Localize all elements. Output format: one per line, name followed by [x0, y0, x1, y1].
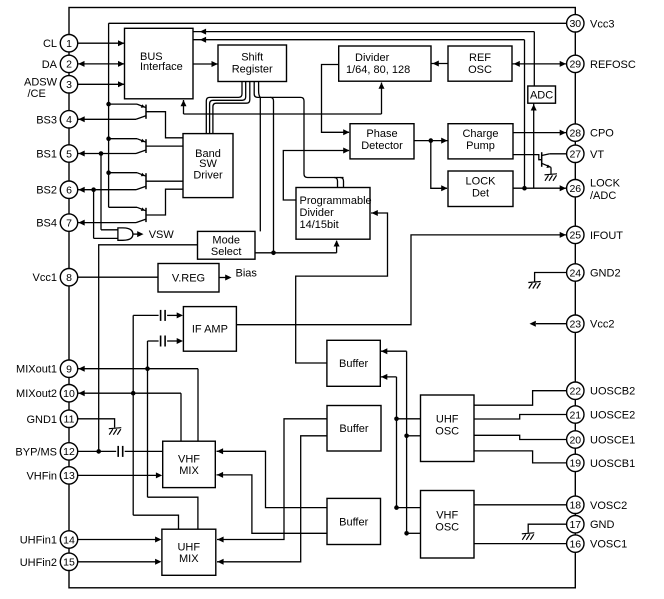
svg-text:OSC: OSC [468, 64, 492, 76]
svg-text:10: 10 [63, 388, 75, 400]
svg-text:1: 1 [66, 38, 72, 50]
svg-text:VHF: VHF [178, 454, 200, 466]
svg-text:CPO: CPO [590, 128, 614, 140]
svg-text:5: 5 [66, 148, 72, 160]
svg-text:Detector: Detector [361, 140, 403, 152]
svg-text:7: 7 [66, 217, 72, 229]
svg-text:Interface: Interface [140, 61, 183, 73]
svg-text:UHF: UHF [436, 414, 459, 426]
svg-text:Mode: Mode [212, 234, 240, 246]
svg-text:Vcc1: Vcc1 [33, 272, 57, 284]
svg-text:ADSW: ADSW [24, 77, 58, 89]
svg-text:Bias: Bias [236, 268, 258, 280]
svg-text:DA: DA [42, 59, 58, 71]
svg-text:Driver: Driver [193, 170, 223, 182]
svg-text:Shift: Shift [241, 52, 263, 64]
svg-text:OSC: OSC [435, 522, 459, 534]
svg-text:Buffer: Buffer [339, 423, 368, 435]
svg-text:BS1: BS1 [36, 149, 57, 161]
svg-text:VOSC2: VOSC2 [590, 500, 627, 512]
svg-text:Pump: Pump [466, 140, 495, 152]
svg-text:12: 12 [63, 446, 75, 458]
svg-text:VOSC1: VOSC1 [590, 539, 627, 551]
svg-text:GND1: GND1 [26, 414, 57, 426]
svg-text:30: 30 [569, 18, 581, 30]
svg-text:11: 11 [64, 414, 75, 426]
svg-text:MIX: MIX [179, 553, 199, 565]
svg-text:Charge: Charge [462, 128, 498, 140]
svg-text:15: 15 [63, 557, 75, 569]
svg-text:2: 2 [66, 59, 72, 71]
svg-text:MIXout1: MIXout1 [16, 364, 57, 376]
svg-text:Buffer: Buffer [339, 517, 368, 529]
svg-text:UHFin2: UHFin2 [20, 557, 57, 569]
svg-text:14: 14 [63, 534, 75, 546]
svg-text:BS3: BS3 [36, 114, 57, 126]
svg-text:BYP/MS: BYP/MS [15, 446, 57, 458]
svg-text:UHFin1: UHFin1 [20, 535, 57, 547]
svg-text:8: 8 [66, 272, 72, 284]
svg-text:Phase: Phase [366, 128, 397, 140]
svg-text:23: 23 [569, 319, 581, 331]
svg-text:16: 16 [569, 538, 581, 550]
svg-text:18: 18 [569, 500, 581, 512]
svg-text:26: 26 [569, 183, 581, 195]
svg-text:OSC: OSC [435, 426, 459, 438]
svg-text:Buffer: Buffer [339, 358, 368, 370]
svg-text:REF: REF [469, 52, 491, 64]
svg-text:BS2: BS2 [36, 185, 57, 197]
svg-text:REFOSC: REFOSC [590, 59, 636, 71]
svg-text:4: 4 [66, 114, 72, 126]
svg-text:Register: Register [232, 64, 273, 76]
svg-text:V.REG: V.REG [172, 273, 205, 285]
svg-text:28: 28 [569, 127, 581, 139]
svg-text:Vcc3: Vcc3 [590, 18, 614, 30]
svg-text:21: 21 [569, 409, 581, 421]
svg-text:19: 19 [569, 458, 581, 470]
svg-text:ADC: ADC [530, 90, 553, 102]
svg-text:Vcc2: Vcc2 [590, 319, 614, 331]
svg-text:MIX: MIX [179, 465, 199, 477]
svg-text:CL: CL [43, 38, 57, 50]
svg-text:IFOUT: IFOUT [590, 230, 623, 242]
svg-text:27: 27 [569, 149, 581, 161]
svg-text:9: 9 [66, 364, 72, 376]
svg-text:6: 6 [66, 185, 72, 197]
svg-text:VSW: VSW [149, 229, 175, 241]
svg-text:UOSCE1: UOSCE1 [590, 435, 635, 447]
svg-text:GND: GND [590, 519, 615, 531]
svg-text:GND2: GND2 [590, 268, 621, 280]
svg-text:UHF: UHF [177, 542, 200, 554]
svg-text:20: 20 [569, 434, 581, 446]
svg-text:13: 13 [63, 470, 75, 482]
svg-text:LOCK: LOCK [466, 176, 497, 188]
svg-text:UOSCE2: UOSCE2 [590, 410, 635, 422]
svg-text:SW: SW [199, 158, 217, 170]
svg-text:Programmable: Programmable [300, 195, 372, 207]
svg-text:22: 22 [569, 386, 581, 398]
svg-text:VHFin: VHFin [26, 470, 57, 482]
svg-text:UOSCB2: UOSCB2 [590, 386, 635, 398]
svg-text:/CE: /CE [28, 88, 46, 100]
svg-text:1/64, 80, 128: 1/64, 80, 128 [346, 64, 410, 76]
svg-text:Divider: Divider [355, 52, 390, 64]
svg-text:25: 25 [569, 230, 581, 242]
svg-text:24: 24 [569, 267, 581, 279]
svg-text:VHF: VHF [436, 510, 458, 522]
svg-text:BS4: BS4 [36, 218, 57, 230]
svg-text:3: 3 [66, 79, 72, 91]
svg-text:Det: Det [472, 188, 489, 200]
svg-text:Divider: Divider [300, 207, 335, 219]
svg-text:Select: Select [211, 246, 242, 258]
svg-text:17: 17 [569, 519, 581, 531]
svg-text:UOSCB1: UOSCB1 [590, 458, 635, 470]
svg-text:/ADC: /ADC [590, 190, 616, 202]
svg-text:29: 29 [569, 59, 581, 71]
svg-text:IF AMP: IF AMP [192, 324, 228, 336]
svg-text:MIXout2: MIXout2 [16, 388, 57, 400]
svg-text:14/15bit: 14/15bit [300, 219, 339, 231]
svg-text:LOCK: LOCK [590, 178, 621, 190]
svg-text:VT: VT [590, 149, 604, 161]
